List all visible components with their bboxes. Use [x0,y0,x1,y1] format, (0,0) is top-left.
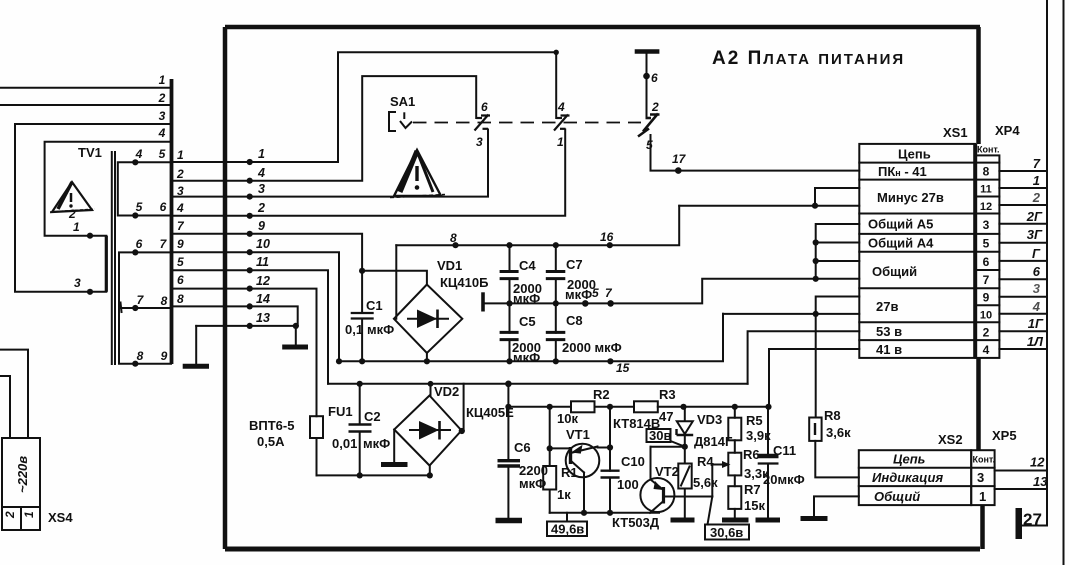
R2 row rail [508,406,571,408]
svg-text:12: 12 [980,201,992,213]
VD2 bottom rail [317,474,431,476]
svg-text:6: 6 [481,100,488,114]
svg-text:VD2: VD2 [434,384,459,399]
svg-text:2Г: 2Г [1026,209,1043,224]
svg-text:мкФ: мкФ [367,322,394,337]
C11 [758,407,805,519]
VD1 bridge diamond [394,258,489,353]
winding A top pin dot [132,159,138,165]
svg-text:9: 9 [161,349,168,363]
svg-text:мкФ: мкФ [363,436,390,451]
VD2 bridge diamond [394,384,514,466]
svg-text:47: 47 [659,409,673,424]
VD2 top vertex stub [430,384,432,396]
svg-text:15к: 15к [744,498,765,513]
R6 [728,447,769,486]
svg-text:R7: R7 [744,482,761,497]
svg-text:11: 11 [256,255,269,269]
node 15 label [607,358,613,364]
capacitor C1 [345,271,394,362]
svg-text:6: 6 [1033,264,1041,279]
ground wire13 right [282,326,308,347]
wire 1 : strip to SA1 loop [171,52,556,162]
contact5 lead to node 17 [651,135,860,171]
svg-text:Конт.: Конт. [977,145,1000,155]
svg-text:VD3: VD3 [697,412,722,427]
svg-text:R2: R2 [593,387,610,402]
svg-text:SA1: SA1 [390,94,415,109]
svg-text:R6: R6 [743,447,760,462]
TV1 core double line [112,152,115,364]
minus rail top (node 8/16) [396,206,679,246]
R3 right rail to 41v riser [658,406,769,408]
winding B (pins 6-7-8) [119,252,171,363]
R5 [728,407,771,453]
svg-text:4: 4 [1032,299,1041,314]
svg-text:мкФ: мкФ [513,291,540,306]
svg-text:ХР4: ХР4 [995,123,1020,138]
VD2 top rail [328,383,748,385]
svg-text:2: 2 [257,201,265,215]
svg-text:TV1: TV1 [78,145,102,160]
svg-text:49,6в: 49,6в [551,522,584,537]
XS2 connector table [859,428,1017,505]
node 5 dot [582,300,589,307]
svg-text:30в: 30в [649,428,671,443]
svg-text:4: 4 [257,166,265,180]
svg-text:9: 9 [983,291,990,305]
svg-text:R1: R1 [561,465,578,480]
wire pin2 top [0,104,171,106]
svg-text:13: 13 [1033,474,1048,489]
VD1 bottom vertex to plus rail [426,353,428,361]
svg-text:9: 9 [258,219,265,233]
svg-text:С8: С8 [566,313,583,328]
svg-text:1: 1 [1033,173,1040,188]
svg-text:Г: Г [1032,246,1041,261]
svg-text:мкФ: мкФ [519,476,546,491]
svg-text:3: 3 [977,470,984,485]
node 8 dot [452,242,458,248]
A2 board border frame [225,27,983,549]
ground under VD3/R4 [671,518,695,523]
R4 wiper from VT2 base [712,465,723,497]
svg-text:16: 16 [600,230,614,244]
svg-text:8: 8 [161,294,168,308]
svg-text:мкФ: мкФ [513,350,540,365]
wire 14 : strip to gnd join [171,306,298,326]
ground under C11 [756,518,781,523]
svg-text:5,6к: 5,6к [693,475,718,490]
strip left pin numbers [135,73,168,363]
fuse FU1 [310,404,353,475]
svg-text:КЦ410Б: КЦ410Б [440,275,488,290]
svg-text:ВПТ6-5: ВПТ6-5 [249,418,294,433]
node 41v/C11 tee dot [765,404,771,410]
svg-text:8: 8 [450,231,457,245]
board wire numbers [256,147,270,325]
capacitor C2 [332,381,390,479]
svg-text:12: 12 [1030,455,1045,470]
svg-text:27в: 27в [876,299,898,314]
svg-text:27: 27 [1023,510,1042,529]
svg-text:C10: C10 [621,454,645,469]
TV1 winding A (pins 4-5) [118,162,171,215]
svg-text:10: 10 [980,310,992,322]
svg-text:17: 17 [672,152,687,166]
dots on mid rail [506,300,512,306]
capacitor C6 [496,407,548,521]
svg-text:20мкФ: 20мкФ [763,472,805,487]
node 7 dot [607,300,614,307]
svg-text:3: 3 [476,135,483,149]
XP4 pin wires [999,156,1047,349]
VT2 transistor [640,447,712,513]
TV1 pin dot 3 [87,289,93,295]
winding B tap tick [121,303,122,313]
svg-text:Цепь: Цепь [898,147,931,162]
XS4 lead left [0,376,10,438]
svg-text:2: 2 [1032,190,1041,205]
junction dot wire1 corner [554,50,559,55]
svg-text:41 в: 41 в [876,342,902,357]
drop from plus node to R2 row [507,384,509,407]
VD2 left vertex ground [381,430,408,465]
svg-text:4: 4 [135,147,143,161]
svg-text:6: 6 [983,255,990,269]
svg-text:9: 9 [177,237,184,251]
resistor R1 [543,448,577,512]
plus rail riser to rows 9,10 and R8 drop [723,297,859,314]
R8 [809,314,859,478]
strip right wire numbers [176,148,185,306]
svg-text:1: 1 [258,147,265,161]
SA1 contact 4-1 [554,115,570,131]
wire pin1 top [0,87,171,89]
30V box [647,428,685,447]
30,6V box [705,497,749,541]
svg-text:R8: R8 [824,408,841,423]
svg-text:1к: 1к [557,487,571,502]
svg-text:7: 7 [1033,156,1041,171]
R4 trimmer [678,447,718,519]
svg-text:С5: С5 [519,314,536,329]
terminal 27 bar [1016,508,1023,539]
R7 [728,482,765,519]
svg-text:12: 12 [256,274,270,288]
svg-text:8: 8 [983,165,990,179]
svg-text:15: 15 [616,361,630,375]
svg-text:C2: C2 [364,409,381,424]
wire 11 : strip to VD2 top rail [171,270,328,384]
svg-text:3,6к: 3,6к [826,425,851,440]
svg-text:1Г: 1Г [1028,316,1044,331]
wire 3 : strip to SA1 contact3 lower [171,130,488,197]
svg-text:5: 5 [159,147,166,161]
zener VD3 [677,407,733,449]
node 16 dot [607,242,613,248]
svg-text:5: 5 [136,200,143,214]
svg-text:2000 мкФ: 2000 мкФ [562,340,622,355]
VD2 right vertex riser [462,384,464,431]
svg-text:Цепь: Цепь [893,452,925,467]
svg-text:С4: С4 [519,258,536,273]
svg-text:6: 6 [177,273,184,287]
svg-text:VT1: VT1 [566,427,590,442]
svg-text:11: 11 [980,184,992,196]
svg-text:0,5А: 0,5А [257,434,285,449]
svg-text:3: 3 [74,276,81,290]
sheet edge vertical far right [1063,0,1065,565]
VT1 transistor [550,427,612,513]
svg-text:6: 6 [651,71,658,85]
svg-text:2: 2 [176,167,184,181]
wire 11-row to VD1 top vertex [362,271,427,285]
svg-text:С11: С11 [773,443,796,458]
49,6V box [547,513,587,537]
svg-text:XS4: XS4 [48,510,73,525]
svg-text:1: 1 [557,135,564,149]
TV1 primary winding [105,236,108,292]
svg-text:C6: C6 [514,440,531,455]
svg-text:10к: 10к [557,411,578,426]
dots on plus rail [336,358,342,364]
capacitor C8 [546,303,622,361]
svg-text:КТ503Д: КТ503Д [612,515,660,530]
plus rail (node 15) [339,314,723,362]
sheet edge vertical right [1022,0,1047,526]
svg-text:8: 8 [177,292,184,306]
svg-text:FU1: FU1 [328,404,353,419]
svg-text:Общий А5: Общий А5 [868,217,933,232]
svg-text:8: 8 [137,349,144,363]
svg-text:2: 2 [983,326,990,340]
mid rail with terminal bar [484,302,611,304]
svg-text:R3: R3 [659,387,676,402]
svg-text:4: 4 [176,201,184,215]
wire 13 : gnd to gnd [196,325,296,327]
svg-text:C1: C1 [366,298,383,313]
svg-text:53 в: 53 в [876,324,902,339]
svg-text:6: 6 [136,237,143,251]
svg-text:XS1: XS1 [943,125,968,140]
svg-text:2: 2 [158,91,166,105]
svg-text:5: 5 [177,255,184,269]
svg-text:0,1: 0,1 [345,322,363,337]
ground left of border [183,326,209,366]
XS1 connector table [859,123,1020,358]
svg-text:2: 2 [3,511,17,519]
svg-text:1: 1 [159,73,166,87]
svg-text:1: 1 [73,220,80,234]
svg-text:5: 5 [983,237,990,251]
svg-text:3: 3 [159,109,166,123]
svg-text:VT2: VT2 [655,464,679,479]
warning triangle small (TV1) [50,182,95,212]
svg-text:Индикация: Индикация [872,470,943,485]
capacitor C5 [500,303,541,365]
minus27 to rows 11,12 [679,188,859,206]
TV1 pin dot 1 [87,233,93,239]
svg-text:100: 100 [617,477,639,492]
svg-text:Общий: Общий [872,264,917,279]
capacitor C7 [546,242,596,303]
svg-text:2: 2 [68,207,76,221]
wire pin4 path to TV1 primary top [45,142,171,236]
svg-text:ХР5: ХР5 [992,428,1017,443]
wire 12 : strip to FU1 [171,289,317,417]
svg-text:~220в: ~220в [15,456,30,493]
53v wire from VD2 plus rail [748,331,860,384]
VD2 bottom vertex stub [429,465,431,475]
svg-text:10: 10 [256,237,270,251]
SA1 contact 6-3 [475,115,491,131]
svg-text:XS2: XS2 [938,432,963,447]
svg-text:4: 4 [983,343,990,357]
bottom rail of regulator [550,512,659,514]
XS4 lead right [0,350,28,438]
svg-text:4: 4 [158,126,166,140]
svg-text:1: 1 [979,489,986,504]
resistor R3 [634,387,676,424]
XS4 connector box [2,438,73,530]
svg-text:14: 14 [256,292,270,306]
svg-text:30,6в: 30,6в [710,525,743,540]
ground under R7 [722,518,749,523]
wire 10 : strip to plus rail [171,252,339,361]
41v wire from R3 rail [769,349,859,407]
VD2 bottom vertex dot [427,472,433,478]
capacitor C4 [500,242,542,306]
node7 wire to obshiy rows 3,5,6,7 [611,224,860,303]
C10 [601,407,645,513]
node C1 top dot [359,268,365,274]
SA1 actuator symbol [389,112,412,131]
svg-text:R5: R5 [746,413,763,428]
svg-text:6: 6 [160,200,167,214]
svg-text:ПКн - 41: ПКн - 41 [878,164,927,179]
svg-text:7: 7 [983,273,990,287]
svg-text:3: 3 [258,182,265,196]
wire 9 : strip to C1 top node [171,234,362,271]
svg-text:13: 13 [256,311,270,325]
svg-text:Д814Г: Д814Г [694,434,733,449]
svg-text:3: 3 [983,218,990,232]
wire pin3 path to TV1 primary bottom [15,124,171,292]
svg-text:1: 1 [22,511,36,518]
svg-text:Общий А4: Общий А4 [868,236,934,251]
svg-text:А2 ПЛАТА ПИТАНИЯ: А2 ПЛАТА ПИТАНИЯ [712,48,905,69]
VD1 left vertex riser [395,245,397,319]
connector strip vertical [170,79,174,364]
SA1 mechanical dashed link [413,122,641,124]
svg-text:Общий: Общий [874,489,920,504]
svg-text:2: 2 [651,100,659,114]
svg-text:1: 1 [177,148,184,162]
svg-text:0,01: 0,01 [332,436,357,451]
svg-text:Конт.: Конт. [973,455,996,465]
R1 base node [549,407,551,449]
svg-text:Минус 27в: Минус 27в [877,190,944,205]
svg-text:С7: С7 [566,257,583,272]
wire 2 : strip to SA1 contact1 lower [171,130,565,216]
wire 4 : strip to SA1 contact 6 [171,76,476,181]
XS2 obshiy to ground [801,496,859,518]
svg-text:3: 3 [1033,281,1041,296]
winding B pin dots [132,249,138,255]
XP5 pin wires [995,455,1049,490]
terminal T node 6 [635,49,660,54]
VT2 collector to VD3 node [651,446,685,448]
warning triangle big [390,150,445,198]
node on VD2 plus rail [505,381,512,388]
R2 right node [595,406,635,408]
SA1 contact 2-5 [638,114,660,137]
svg-text:VD1: VD1 [437,258,462,273]
svg-text:мкФ: мкФ [565,287,592,302]
resistor R2 [557,387,610,426]
svg-text:4: 4 [557,100,565,114]
winding A bottom pin dot [132,212,138,218]
svg-text:1Л: 1Л [1027,334,1044,349]
svg-text:3Г: 3Г [1027,227,1043,242]
junction dots column [247,159,299,329]
